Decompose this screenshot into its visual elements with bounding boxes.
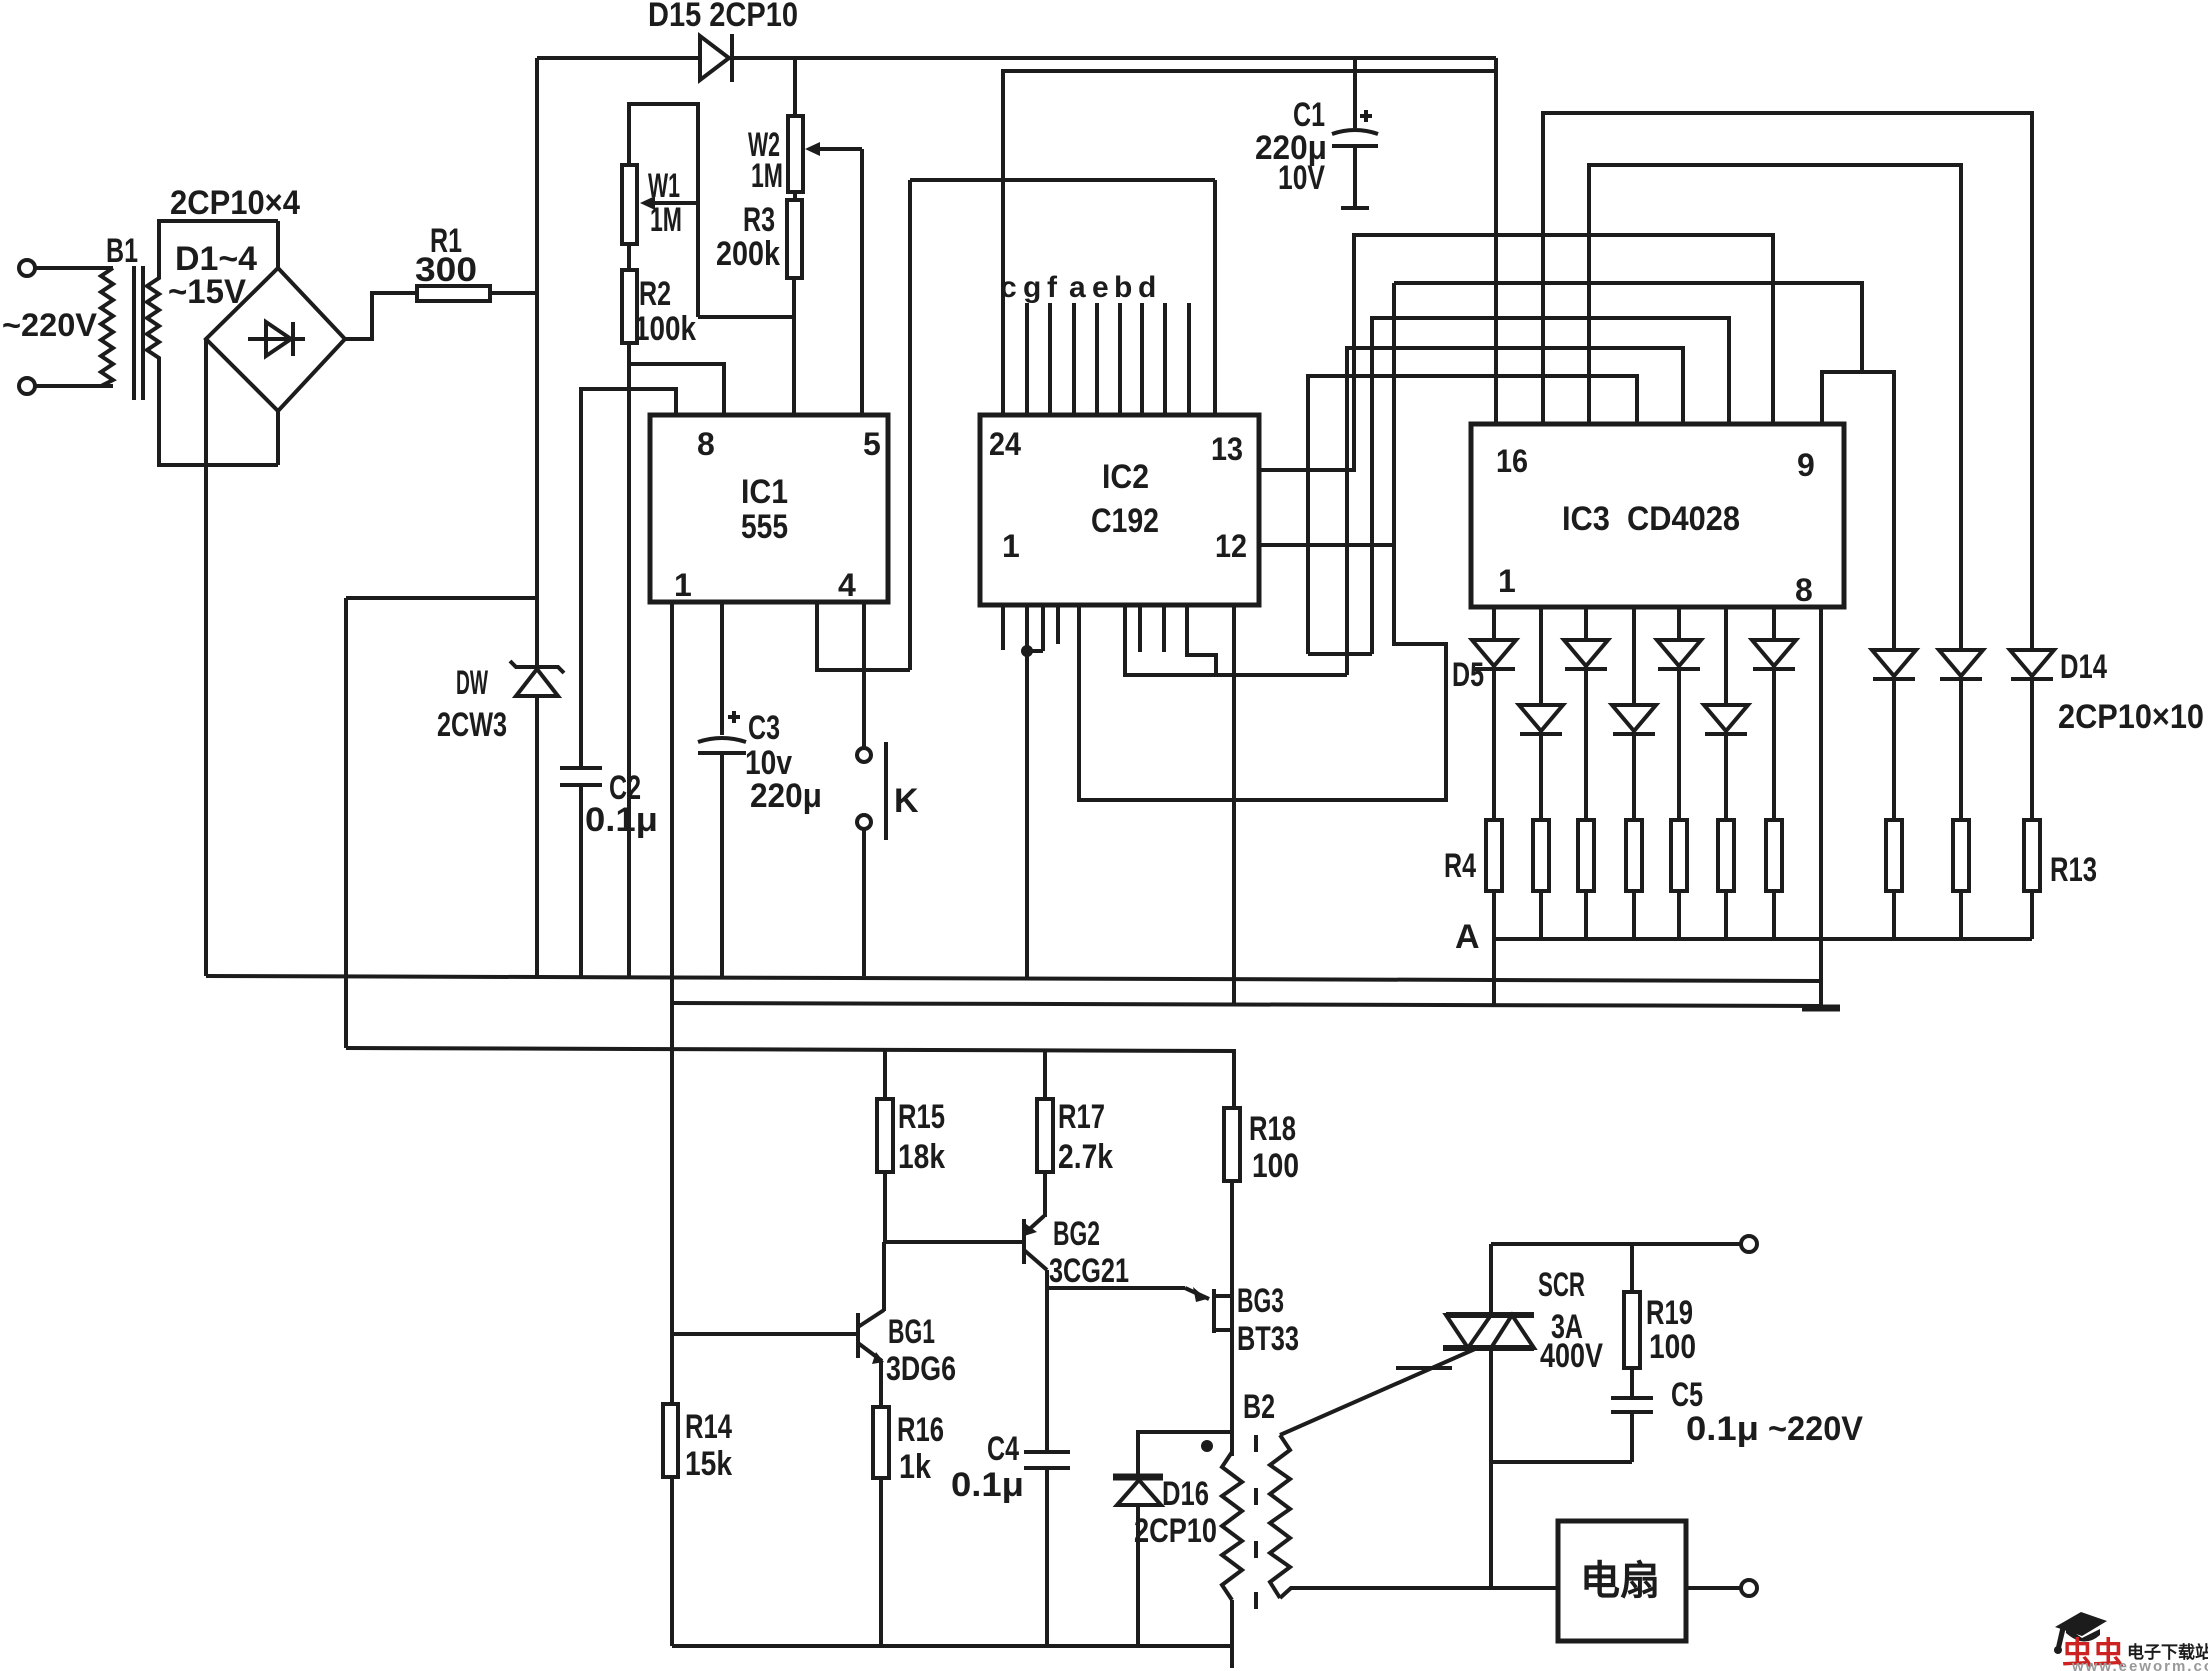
potentiometer W2: [788, 116, 862, 192]
resistor R4: [1486, 820, 1502, 939]
wire C2 bottom to ground bus: [579, 785, 583, 976]
resistor R1: [417, 286, 490, 301]
wire IC2 pin to ground bus1 with junction: [1021, 605, 1043, 978]
terminal input bottom: [19, 378, 113, 394]
svg-text:BT33: BT33: [1237, 1320, 1299, 1358]
svg-text:4: 4: [838, 567, 856, 603]
ground bus1: [206, 976, 1821, 981]
svg-text:1M: 1M: [650, 201, 682, 239]
wire C2 top to IC1 pin: [581, 389, 676, 768]
bridge box with B1 secondary coil on left edge: [147, 221, 278, 465]
wire snubber bottom link: [1491, 1460, 1632, 1464]
svg-text:c: c: [1000, 271, 1017, 304]
diode D7: [1564, 607, 1608, 820]
svg-text:R4: R4: [1444, 847, 1476, 885]
svg-text:W1: W1: [648, 167, 680, 205]
watermark black text: [2127, 1642, 2208, 1662]
diode D8: [1612, 607, 1656, 820]
wire SCR main vertical: [1489, 1244, 1493, 1588]
IC2 bottom stubs: [1003, 605, 1164, 652]
svg-text:2CP10: 2CP10: [1134, 1512, 1217, 1550]
wire bridge DC plus to R1: [345, 293, 417, 339]
wire BG1 emitter to R16: [879, 1361, 883, 1407]
wire sub-nest riser 1 to IC3: [1372, 318, 1729, 654]
transistor BG1: [672, 1310, 884, 1364]
wire BG2 collector to BG3 emitter: [1047, 1287, 1209, 1302]
resistor R18: [1224, 1108, 1240, 1181]
transformer B2 secondary coil: [1270, 1435, 1290, 1598]
wire R1 to main vertical: [490, 291, 537, 295]
watermark gray text: [2071, 1658, 2208, 1671]
svg-text:DW: DW: [456, 664, 489, 702]
wire BG1 collector up: [882, 1242, 886, 1311]
capacitor C5: [1611, 1368, 1653, 1462]
resistor R5: [1533, 820, 1549, 939]
wire branch left to output stage rail: [346, 598, 537, 1048]
watermark cap icon: [2054, 1612, 2107, 1654]
capacitor C3 electrolytic: [698, 711, 746, 753]
svg-text:e: e: [1092, 271, 1109, 304]
diode D12: [1872, 650, 1916, 820]
svg-text:D15 2CP10: D15 2CP10: [648, 0, 798, 34]
wire K bottom to ground bus: [862, 829, 866, 976]
wire BG2 collector node: [1045, 1270, 1049, 1288]
diode D14: [2010, 650, 2054, 820]
svg-text:R2: R2: [639, 275, 671, 313]
wire B2 secondary bottom to fan line: [1280, 1588, 1558, 1598]
transformer B1 core: [134, 266, 143, 400]
wire bridge top vertex to box top: [276, 221, 280, 268]
nest bracket IC3 pin2 to D14: [1543, 113, 2032, 650]
wire R2 branch to IC1 pin7: [629, 364, 724, 413]
svg-text:R16: R16: [897, 1411, 944, 1449]
svg-text:~220V: ~220V: [1768, 1410, 1863, 1448]
wire B2 primary bottom to rail and stub: [1230, 1600, 1234, 1668]
svg-text:BG3: BG3: [1237, 1282, 1284, 1320]
svg-text:电扇: 电扇: [1580, 1559, 1660, 1603]
svg-text:13: 13: [1211, 431, 1243, 467]
svg-text:100k: 100k: [634, 310, 696, 348]
labels c g f a e b d: [1000, 271, 1156, 304]
diode D15: [700, 34, 732, 82]
IC3 CD4028 box: [1471, 424, 1844, 607]
svg-text:24: 24: [989, 426, 1021, 462]
node A line: [1494, 937, 2032, 941]
svg-text:R15: R15: [898, 1098, 945, 1136]
svg-text:R13: R13: [2050, 851, 2097, 889]
wire sub-nest riser 2 to IC3: [1347, 348, 1683, 675]
svg-text:K: K: [894, 782, 919, 820]
svg-text:18k: 18k: [898, 1138, 945, 1176]
terminal input top: [19, 260, 113, 276]
wire top +V rail: [537, 56, 1496, 60]
resistor R12: [1953, 820, 1969, 939]
wire BG2 collector down through C4: [1045, 1288, 1049, 1646]
svg-text:b: b: [1114, 271, 1132, 304]
diode D9: [1657, 607, 1701, 820]
resistor R6: [1578, 820, 1594, 939]
diode D16: [1113, 1432, 1232, 1646]
resistor R19: [1624, 1244, 1640, 1368]
svg-text:R18: R18: [1249, 1110, 1296, 1148]
wire sub-nest bracket to bottom pin: [1079, 283, 1446, 800]
ground bus2: [672, 1003, 1821, 1006]
transformer B2 core dashes: [1254, 1435, 1258, 1609]
resistor R15: [877, 1051, 893, 1172]
resistor R2: [622, 270, 637, 343]
svg-text:1k: 1k: [899, 1448, 931, 1486]
diode D5: [1472, 607, 1516, 820]
resistor R10: [1766, 820, 1782, 939]
svg-text:BG2: BG2: [1053, 1215, 1100, 1253]
svg-text:C192: C192: [1091, 502, 1159, 540]
svg-text:R3: R3: [743, 201, 775, 239]
wire DW anode to ground bus: [535, 696, 539, 976]
wire bridge bottom vertex to box bottom: [276, 411, 280, 465]
wire R15 bottom to BG1 collector node: [883, 1172, 887, 1242]
svg-text:R14: R14: [685, 1408, 732, 1446]
polarity dot B2: [1201, 1440, 1213, 1452]
svg-text:100: 100: [1252, 1147, 1299, 1185]
wire node A drop to bus2: [1492, 939, 1496, 1005]
wire W1 top frame: [629, 104, 698, 317]
svg-text:1: 1: [1002, 528, 1020, 564]
wire C1 drop from +V rail: [1353, 58, 1357, 128]
svg-text:D14: D14: [2060, 648, 2107, 686]
svg-text:3DG6: 3DG6: [886, 1350, 956, 1388]
wire IC3 pin8 to ground: [1819, 607, 1823, 1006]
transformer B1 primary coil: [101, 268, 113, 386]
wire sub-nest riser 3 to IC3: [1308, 376, 1637, 654]
wire IC2 pin13 route to IC3: [1259, 235, 1773, 470]
terminal AC bottom: [1741, 1580, 1757, 1596]
svg-text:1: 1: [1498, 563, 1516, 599]
supply bus3 output stage: [346, 1048, 1234, 1108]
svg-text:g: g: [1023, 271, 1041, 304]
svg-text:3CG21: 3CG21: [1049, 1252, 1129, 1290]
wire pin4 node up to IC2 top wire: [910, 180, 1215, 670]
svg-text:1M: 1M: [751, 157, 783, 195]
diode D10: [1704, 607, 1748, 820]
svg-text:8: 8: [697, 426, 715, 462]
resistor R3: [787, 200, 802, 278]
wire W2 wiper to IC1 pin5: [860, 149, 864, 413]
svg-text:2.7k: 2.7k: [1058, 1138, 1113, 1176]
svg-text:100: 100: [1649, 1328, 1696, 1366]
zener diode DW: [510, 661, 564, 696]
svg-text:~220V: ~220V: [2, 307, 98, 343]
IC2 C192 box: [980, 415, 1259, 605]
svg-text:C3: C3: [748, 709, 780, 747]
wire IC2 pin12 jog: [1259, 543, 1394, 547]
svg-text:5: 5: [863, 426, 881, 462]
capacitor C1 electrolytic: [1332, 110, 1378, 146]
svg-text:D16: D16: [1162, 1475, 1209, 1513]
IC2 segment output stubs: [1027, 303, 1189, 415]
nest bracket IC3 pin9 to D12: [1822, 372, 1894, 650]
wire bridge DC minus down to ground bus: [204, 339, 208, 976]
svg-text:1: 1: [674, 567, 692, 603]
transformer B2 primary coil: [1222, 1452, 1242, 1600]
wire W2 top lead: [793, 58, 797, 116]
nest bracket IC3 pin3 to D13: [1589, 165, 1961, 650]
wire IC2 right top pin from K net: [1213, 180, 1217, 415]
svg-text:IC1: IC1: [741, 473, 788, 511]
wire IC2 pin24 to +V rail: [1003, 71, 1496, 415]
capacitor C4: [1024, 1452, 1070, 1468]
potentiometer W1: [622, 165, 697, 244]
svg-text:C5: C5: [1671, 1376, 1703, 1414]
svg-text:f: f: [1047, 271, 1058, 304]
wire sub-nest tie: [1308, 652, 1372, 656]
svg-text:300: 300: [415, 251, 477, 289]
capacitor C2: [560, 768, 602, 785]
resistor R13: [2024, 820, 2040, 939]
wire R2 bottom to ground bus: [627, 343, 631, 976]
wire IC2 bottom pin bracket: [1125, 605, 1347, 675]
bottom common rail: [672, 1644, 1232, 1648]
svg-text:10V: 10V: [1278, 159, 1325, 197]
svg-text:B1: B1: [106, 232, 138, 270]
svg-text:2CW3: 2CW3: [437, 706, 507, 744]
resistor R7: [1626, 820, 1642, 939]
wire IC1 pin4 U link: [817, 602, 910, 670]
bridge rectifier D1-D4 diamond: [206, 268, 345, 411]
svg-text:200k: 200k: [716, 235, 780, 273]
wire BG2 base line: [885, 1240, 1022, 1244]
wire R17 bottom to BG2 emitter: [1043, 1172, 1047, 1217]
svg-text:2CP10×4: 2CP10×4: [170, 184, 300, 222]
svg-text:a: a: [1069, 271, 1086, 304]
terminal AC top: [1741, 1236, 1757, 1252]
svg-text:0.1μ: 0.1μ: [1686, 1410, 1759, 1448]
diode D11: [1752, 607, 1796, 820]
svg-text:16: 16: [1496, 443, 1528, 479]
svg-text:~15V: ~15V: [168, 273, 246, 311]
resistor R8: [1671, 820, 1687, 939]
wire main +V vertical: [535, 58, 539, 666]
svg-text:BG1: BG1: [888, 1313, 935, 1351]
wire R16 bottom to rail: [879, 1478, 883, 1646]
svg-text:d: d: [1138, 271, 1156, 304]
transistor BG3 unijunction: [1214, 1289, 1232, 1333]
svg-text:2CP10×10: 2CP10×10: [2058, 698, 2204, 736]
resistor R16: [873, 1407, 889, 1478]
svg-text:8: 8: [1795, 572, 1813, 608]
diode D6: [1519, 607, 1563, 820]
wire IC2 pin12 route upper: [1394, 283, 1862, 372]
svg-text:IC2: IC2: [1102, 458, 1149, 496]
wire C1 negative stub: [1341, 146, 1369, 208]
svg-text:D5: D5: [1452, 656, 1484, 694]
svg-text:R19: R19: [1646, 1294, 1693, 1332]
diode D13: [1939, 650, 1983, 820]
svg-text:IC3 CD4028: IC3 CD4028: [1562, 500, 1740, 538]
svg-text:0.1μ: 0.1μ: [585, 801, 658, 839]
svg-text:SCR: SCR: [1538, 1266, 1585, 1304]
svg-text:www.eeworm.com: www.eeworm.com: [2071, 1658, 2208, 1671]
svg-text:B2: B2: [1243, 1388, 1275, 1426]
svg-text:555: 555: [741, 508, 788, 546]
svg-text:R17: R17: [1058, 1098, 1105, 1136]
watermark red text: [2062, 1636, 2124, 1671]
wire R18 bottom through BG3 to B2: [1230, 1181, 1234, 1456]
resistor R17: [1037, 1051, 1053, 1172]
resistor R14: [663, 1404, 678, 1477]
IC1 555 box: [650, 415, 888, 602]
switch K: [857, 670, 886, 840]
fan box: [1558, 1521, 1686, 1641]
wire IC1 pin1 to ground rail: [670, 602, 674, 1646]
svg-text:9: 9: [1797, 447, 1815, 483]
bridge inner diode symbol: [248, 322, 305, 356]
ground symbol: [1802, 1005, 1840, 1012]
wire IC2 ground pin to bus2: [1232, 605, 1236, 1004]
wire W2 to R3: [793, 192, 797, 200]
svg-text:0.1μ: 0.1μ: [951, 1466, 1024, 1504]
wire W1 to R2: [627, 244, 631, 270]
svg-text:400V: 400V: [1540, 1337, 1603, 1375]
resistor R9: [1718, 820, 1734, 939]
resistor R11: [1886, 820, 1902, 939]
transistor BG2: [1024, 1216, 1047, 1270]
wire R3 bottom to IC1 top, junction with W1 frame: [698, 278, 794, 413]
svg-text:220μ: 220μ: [750, 777, 822, 815]
wire +V to IC3 pin16: [1494, 58, 1498, 424]
wire fan to terminal: [1686, 1586, 1741, 1590]
svg-text:15k: 15k: [685, 1445, 732, 1483]
wire SCR top rail to terminal: [1491, 1242, 1741, 1246]
wire B2 secondary top to SCR gate: [1280, 1349, 1475, 1435]
svg-text:C4: C4: [987, 1430, 1019, 1468]
svg-text:12: 12: [1215, 528, 1247, 564]
svg-text:A: A: [1455, 918, 1480, 956]
wire IC1 pin2 through C3 to ground bus: [720, 602, 724, 976]
triac SCR: [1443, 1315, 1534, 1348]
